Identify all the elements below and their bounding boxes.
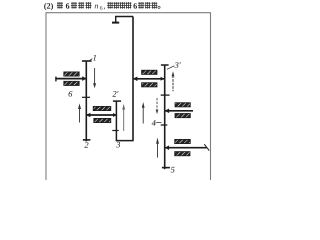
gear 4 mesh line (165, 110, 193, 112)
label 1 with leader (90, 59, 93, 61)
gear 5 rim lower (175, 152, 190, 156)
shaft S3 (carrier vertical shaft) (132, 17, 134, 141)
gear 2-2' mesh line (86, 114, 116, 116)
gear 2 rim lower (94, 118, 111, 122)
junction dot at S2 (113, 113, 117, 117)
gear 3' rim upper (142, 70, 157, 74)
carrier arm H (top bent link) (116, 17, 133, 23)
label 6 (69, 91, 73, 97)
arrow A2 up (left of gear 2) (78, 103, 81, 122)
gear 5 mesh line (output) (165, 147, 207, 149)
shaft S4 tick (y125) (161, 124, 168, 126)
shaft S4 bottom T-bar (162, 167, 170, 169)
label 2 (84, 142, 88, 148)
label 5 (171, 167, 175, 173)
gear 6 rim upper (64, 72, 79, 76)
arrow A1 down (right of gear 1) (93, 68, 96, 88)
gear 2 rim upper (93, 106, 111, 110)
frame (housing) border: top, left, right (46, 12, 211, 180)
caption text row (blurred Chinese problem text) (44, 2, 160, 10)
label 4 with leader (152, 120, 156, 126)
gear 3' mesh line (133, 78, 165, 80)
gear 3' rim lower (142, 83, 157, 87)
shaft S1 mid tick (82, 96, 90, 98)
gear 6 mesh line (wheel 6 on left shaft) (56, 78, 86, 80)
junction dot at S4 (mesh 3') (161, 77, 165, 81)
shaft S4 (gears 4-5 shaft) (164, 65, 166, 169)
junction arrow at S4 (mesh 5) (165, 145, 169, 150)
shaft S1 bottom T-bar (gear 2) (83, 139, 91, 141)
arrow A6 up (left of gear 5) (156, 138, 159, 158)
shaft S2 top T-bar (113, 100, 121, 102)
arrow A7 up (right of S2) (122, 104, 125, 131)
gear 5 rim upper (175, 139, 191, 143)
junction arrow at S3 (133, 77, 137, 82)
shaft S2 gear tick (112, 130, 118, 132)
label 3' with leader (167, 66, 174, 70)
shaft S2 (planet shaft, gears 2'-3) (115, 101, 117, 141)
shaft S4 top T-bar (161, 64, 169, 66)
arrow A3 up (right of S4 top) (172, 71, 175, 91)
gear 4 rim upper (175, 103, 190, 107)
shaft S1 (gears 1-2 shaft) (85, 61, 87, 141)
shaft S4 tick (y95) (161, 94, 170, 96)
output end diagonal tick (204, 144, 209, 150)
label 3 (116, 142, 120, 148)
junction arrow at S4 (mesh 4) (165, 109, 169, 114)
junction arrow at S1 (mesh 2) (86, 113, 90, 118)
gear 6 shaft end tick (55, 77, 57, 82)
arrow A4 up (left of gear 4) (142, 102, 145, 124)
carrier bearing T-bar (112, 22, 119, 24)
arrow A5 down dashed (left of S4) (156, 98, 159, 114)
junction arrow at S1 (82, 76, 86, 81)
gear 6 rim lower (64, 81, 79, 85)
label 2' (112, 91, 118, 97)
gear 4 rim lower (175, 114, 190, 118)
carrier bottom link (U to planet shaft) (116, 140, 134, 142)
shaft S1 top T-bar (gear 1) (82, 60, 92, 62)
